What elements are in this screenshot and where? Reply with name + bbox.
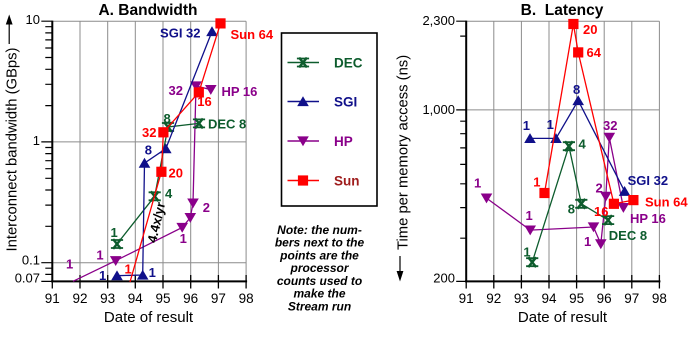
Sun series line right xyxy=(545,24,634,204)
right chart x ticks xyxy=(466,275,659,289)
svg-text:SGI 32: SGI 32 xyxy=(160,26,200,41)
svg-text:1: 1 xyxy=(180,231,187,246)
svg-text:SGI: SGI xyxy=(334,95,357,110)
legend box xyxy=(282,33,378,206)
svg-text:1: 1 xyxy=(125,261,132,276)
svg-text:96: 96 xyxy=(597,291,612,306)
svg-text:1: 1 xyxy=(96,248,103,263)
svg-text:Time per memory access (ns): Time per memory access (ns) xyxy=(396,55,412,250)
svg-text:Date of result: Date of result xyxy=(518,309,608,326)
HP series line left xyxy=(73,86,211,281)
SGI markers left xyxy=(111,270,123,280)
svg-text:1: 1 xyxy=(584,234,591,249)
svg-text:Interconnect bandwidth (GBps): Interconnect bandwidth (GBps) xyxy=(5,47,21,251)
svg-text:Sun: Sun xyxy=(334,174,360,189)
svg-text:0.07: 0.07 xyxy=(15,270,40,285)
svg-text:8: 8 xyxy=(568,202,575,217)
svg-text:1: 1 xyxy=(33,133,40,148)
DEC markers right xyxy=(526,257,538,267)
HP markers left xyxy=(110,256,122,266)
svg-text:0.1: 0.1 xyxy=(22,253,40,268)
svg-text:20: 20 xyxy=(583,22,597,37)
svg-text:1: 1 xyxy=(533,174,540,189)
svg-text:B. Latency: B. Latency xyxy=(521,2,604,19)
svg-text:Stream run: Stream run xyxy=(288,299,351,313)
svg-text:97: 97 xyxy=(624,291,639,306)
SGI markers right xyxy=(524,133,536,143)
svg-text:1: 1 xyxy=(111,225,118,240)
HP markers right xyxy=(481,194,493,204)
svg-text:HP: HP xyxy=(334,134,353,149)
svg-text:32: 32 xyxy=(169,83,183,98)
svg-text:SGI 32: SGI 32 xyxy=(628,173,668,188)
svg-text:92: 92 xyxy=(72,291,87,306)
svg-text:95: 95 xyxy=(569,291,584,306)
svg-text:1: 1 xyxy=(526,208,533,223)
right chart gridlines xyxy=(466,21,659,281)
svg-text:8: 8 xyxy=(573,82,580,97)
svg-text:64: 64 xyxy=(587,45,602,60)
left chart axes xyxy=(51,21,247,282)
svg-text:32: 32 xyxy=(142,125,156,140)
left y axis arrow xyxy=(8,24,10,44)
svg-text:10: 10 xyxy=(26,12,40,27)
svg-text:1: 1 xyxy=(523,118,530,133)
legend entry HP xyxy=(288,140,320,142)
svg-text:1,000: 1,000 xyxy=(422,102,455,117)
svg-text:93: 93 xyxy=(514,291,529,306)
svg-text:A. Bandwidth: A. Bandwidth xyxy=(98,2,197,19)
HP series line right xyxy=(487,137,624,244)
right y axis arrow xyxy=(399,256,401,272)
svg-text:95: 95 xyxy=(155,291,170,306)
svg-text:4: 4 xyxy=(579,137,587,152)
svg-text:2: 2 xyxy=(203,200,210,215)
svg-text:93: 93 xyxy=(100,291,115,306)
right chart axes xyxy=(465,21,660,282)
svg-text:20: 20 xyxy=(169,165,183,180)
svg-text:16: 16 xyxy=(594,204,608,219)
svg-text:DEC 8: DEC 8 xyxy=(609,228,647,243)
svg-text:91: 91 xyxy=(45,291,60,306)
svg-text:200: 200 xyxy=(433,270,455,285)
Sun markers right xyxy=(539,188,549,198)
DEC series line right xyxy=(532,146,608,262)
SGI series line right xyxy=(530,101,625,192)
left chart x ticks xyxy=(52,275,246,289)
svg-text:1: 1 xyxy=(474,175,481,190)
left chart y ticks xyxy=(41,21,52,281)
svg-text:1: 1 xyxy=(523,244,530,259)
svg-text:98: 98 xyxy=(239,291,254,306)
svg-text:Sun 64: Sun 64 xyxy=(645,195,688,210)
svg-text:92: 92 xyxy=(486,291,501,306)
svg-text:91: 91 xyxy=(459,291,474,306)
svg-text:97: 97 xyxy=(211,291,226,306)
svg-text:96: 96 xyxy=(183,291,198,306)
SGI series line left xyxy=(117,32,212,276)
legend entry Sun xyxy=(288,180,320,182)
svg-text:8: 8 xyxy=(164,111,171,126)
Sun series line left xyxy=(130,23,221,282)
svg-text:4: 4 xyxy=(165,186,173,201)
legend entry SGI xyxy=(288,101,320,103)
right chart y ticks xyxy=(456,21,466,281)
svg-text:2,300: 2,300 xyxy=(422,13,455,28)
svg-text:94: 94 xyxy=(541,291,557,306)
svg-text:16: 16 xyxy=(197,94,211,109)
svg-text:1: 1 xyxy=(99,268,106,283)
svg-text:Sun 64: Sun 64 xyxy=(231,27,274,42)
svg-text:HP 16: HP 16 xyxy=(222,84,258,99)
svg-text:32: 32 xyxy=(603,118,617,133)
svg-text:98: 98 xyxy=(652,291,667,306)
DEC series line left xyxy=(117,123,199,244)
svg-text:DEC: DEC xyxy=(334,56,363,71)
svg-text:1: 1 xyxy=(66,256,73,271)
legend entry DEC xyxy=(288,62,320,64)
svg-text:1: 1 xyxy=(149,265,156,280)
Sun markers left xyxy=(156,167,166,177)
svg-text:1: 1 xyxy=(547,117,554,132)
svg-text:Date of result: Date of result xyxy=(104,309,194,326)
svg-text:2: 2 xyxy=(596,181,603,196)
svg-text:94: 94 xyxy=(128,291,144,306)
DEC markers left xyxy=(111,239,123,249)
svg-text:8: 8 xyxy=(145,142,152,157)
svg-text:DEC 8: DEC 8 xyxy=(208,117,246,132)
svg-text:HP 16: HP 16 xyxy=(630,211,666,226)
left chart gridlines xyxy=(52,21,246,281)
